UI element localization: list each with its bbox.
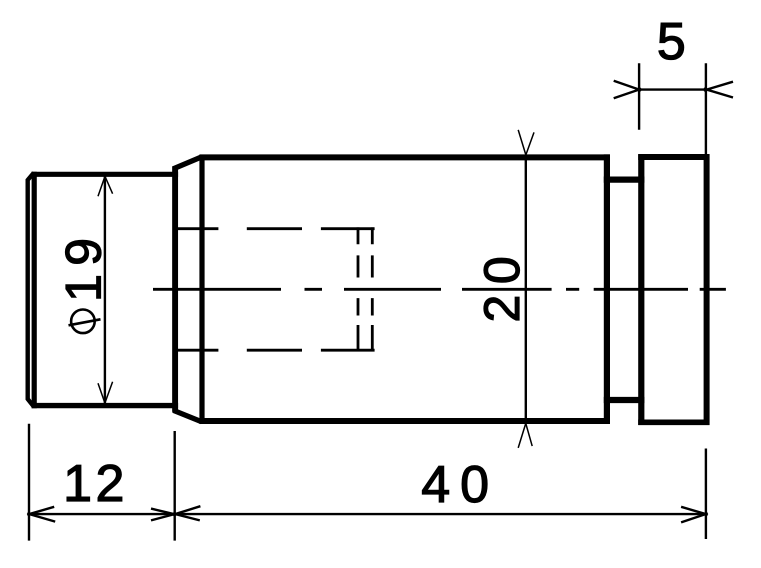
svg-text:9: 9 (56, 238, 112, 266)
svg-text:5: 5 (657, 13, 686, 71)
svg-text:1: 1 (56, 274, 112, 302)
svg-text:4: 4 (421, 456, 450, 514)
svg-text:2: 2 (474, 295, 530, 323)
svg-text:0: 0 (474, 256, 530, 284)
svg-text:1: 1 (63, 455, 92, 513)
svg-text:0: 0 (460, 456, 489, 514)
svg-text:2: 2 (96, 455, 125, 513)
